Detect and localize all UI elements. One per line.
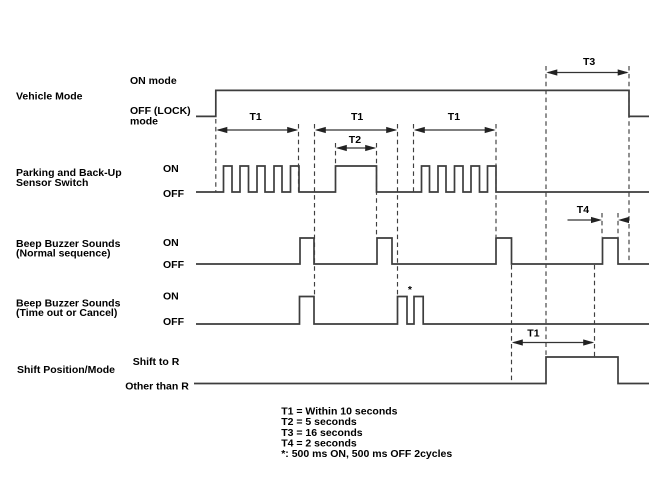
dashed line x=298.5 (298, 124, 300, 192)
svg-text:ON: ON (163, 237, 179, 249)
svg-text:Shift Position/Mode: Shift Position/Mode (17, 364, 115, 376)
svg-text:ON mode: ON mode (130, 75, 177, 87)
svg-text:(Normal sequence): (Normal sequence) (16, 248, 111, 260)
sensor switch waveform (196, 166, 649, 192)
svg-text:OFF: OFF (163, 259, 185, 271)
svg-text:*: 500 ms ON, 500 ms OFF 2cycl: *: 500 ms ON, 500 ms OFF 2cycles (281, 448, 452, 460)
svg-text:Sensor Switch: Sensor Switch (16, 177, 88, 189)
dashed line x=413.5 (413, 124, 415, 192)
dashed line x=629 (628, 66, 630, 264)
svg-text:OFF: OFF (163, 188, 185, 200)
buzzer normal waveform (196, 238, 649, 264)
svg-text:T1: T1 (527, 327, 539, 339)
T1 arrow 4 (shift) (512, 339, 594, 345)
svg-text:Vehicle Mode: Vehicle Mode (16, 91, 83, 103)
svg-text:Shift to R: Shift to R (133, 356, 180, 368)
dashed line at vehicle rise x=216 (215, 119, 217, 192)
dashed line x=602 (T4 left) (601, 213, 603, 237)
T1 arrow 2 (315, 127, 397, 133)
svg-text:T1: T1 (448, 111, 460, 123)
T1 arrow 1 (216, 127, 298, 133)
dashed line x=618 (T4 right) (617, 213, 619, 237)
svg-text:Other than R: Other than R (125, 381, 189, 393)
dashed line x=335.5 (335, 143, 337, 165)
dashed line x=511.5 (511, 265, 513, 383)
dashed line x=594.5 (594, 265, 596, 357)
svg-text:(Time out or Cancel): (Time out or Cancel) (16, 307, 117, 319)
svg-text:T4: T4 (577, 204, 589, 216)
T3 arrow (546, 69, 628, 75)
dashed line x=314.5 (314, 124, 316, 296)
T2 arrow (336, 145, 376, 151)
dashed line x=546 (545, 66, 547, 357)
svg-text:mode: mode (130, 115, 158, 127)
svg-text:T2: T2 (349, 134, 361, 146)
buzzer timeout waveform (196, 297, 649, 325)
svg-text:ON: ON (163, 290, 179, 302)
vehicle mode waveform (196, 90, 649, 116)
T1 arrow 3 (414, 127, 496, 133)
T4 outside arrows (568, 217, 630, 223)
svg-text:T1: T1 (250, 111, 262, 123)
shift position waveform (194, 357, 649, 384)
svg-text:ON: ON (163, 163, 179, 175)
svg-text:T3: T3 (583, 56, 595, 68)
svg-text:T1: T1 (351, 111, 363, 123)
dashed line x=397.5 (397, 124, 399, 296)
dashed line x=376.5 (376, 143, 378, 237)
svg-text:OFF: OFF (163, 316, 185, 328)
dashed line x=496 (495, 124, 497, 237)
